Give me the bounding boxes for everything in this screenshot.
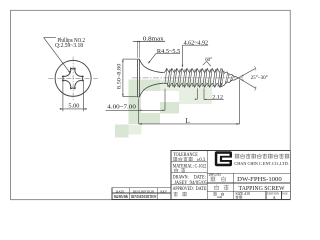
svg-text:REVISED EDITION: REVISED EDITION: [131, 195, 156, 199]
dimension 60 degree thread angle: [203, 56, 212, 66]
revision table: [112, 188, 171, 200]
svg-text:A: A: [273, 195, 276, 200]
dwg no cell: [209, 173, 282, 183]
approved cell: [173, 187, 208, 196]
svg-text:DATE:: DATE:: [196, 187, 208, 192]
unit cell: [213, 192, 224, 199]
title block grid: [171, 150, 290, 199]
screw axis centerline: [132, 77, 243, 79]
svg-text:L: L: [186, 117, 190, 125]
tolerance cell: [173, 152, 206, 163]
svg-text:SIZE #10: SIZE #10: [235, 192, 250, 196]
dimension 5.00 recess width: [59, 80, 87, 111]
svg-text:PAGE: PAGE: [282, 192, 287, 196]
material cell: [173, 164, 207, 172]
svg-text:DW-FPHS-1000: DW-FPHS-1000: [237, 176, 282, 183]
page cell: [282, 192, 287, 196]
company name: [234, 154, 289, 168]
screw head profile: [138, 59, 165, 97]
dimension 4.62~4.92: [182, 41, 209, 68]
drawn cell: [173, 176, 208, 186]
svg-text:DWG.NO: DWG.NO: [209, 173, 222, 177]
svg-text:4.00~7.00: 4.00~7.00: [107, 105, 136, 111]
svg-text:JASEY: JASEY: [174, 181, 188, 186]
svg-text:25°~30°: 25°~30°: [251, 74, 268, 81]
svg-text:4.62~4.92: 4.62~4.92: [184, 41, 208, 47]
svg-text:APPROVED:: APPROVED:: [173, 187, 194, 192]
dimension R4.5~5.5: [148, 49, 180, 64]
phillips recess cross: [62, 68, 83, 89]
svg-text:DESCRIPTION: DESCRIPTION: [133, 190, 155, 194]
company logo: [215, 151, 232, 166]
svg-text:0.8max: 0.8max: [143, 37, 164, 43]
head outline circle: [55, 60, 91, 96]
svg-text:±0.3: ±0.3: [197, 158, 206, 163]
screw thread: [165, 69, 239, 88]
svg-text:94/05/06: 94/05/06: [114, 195, 128, 199]
dimension 25~30 degree point angle: [238, 66, 268, 91]
svg-text:Q:2.59~3.18: Q:2.59~3.18: [55, 42, 83, 49]
svg-text:DATE: DATE: [116, 190, 125, 194]
svg-text:MATERIAL: C-1022: MATERIAL: C-1022: [173, 164, 207, 169]
svg-text:5.00: 5.00: [68, 103, 79, 109]
dimension 0.8max: [133, 37, 165, 58]
drawing border frame: [11, 10, 291, 199]
svg-text:94/05/05: 94/05/05: [190, 181, 208, 186]
svg-text:DRAWN:: DRAWN:: [173, 176, 189, 181]
leader note Phillips NO.2: [44, 37, 85, 74]
dimension 2.12 thread pitch: [195, 88, 224, 100]
green company-logo watermark: [115, 80, 212, 138]
svg-text:8.50~8.80: 8.50~8.80: [116, 63, 122, 89]
size cell: [235, 192, 250, 199]
part name cell: [214, 185, 285, 192]
dimension L overall length: [139, 80, 240, 125]
dimension 8.50~8.80 head diameter: [116, 59, 137, 97]
edition cell: [267, 192, 279, 200]
svg-text:mm: mm: [217, 195, 222, 199]
svg-text:60°: 60°: [205, 56, 212, 63]
svg-text:DATE:: DATE:: [194, 176, 206, 181]
svg-text:2.12: 2.12: [212, 95, 223, 101]
centerlines of head view: [48, 57, 97, 101]
dimension 4.00~7.00: [106, 89, 165, 111]
svg-text:REV: REV: [160, 190, 167, 194]
svg-text:R4.5~5.5: R4.5~5.5: [157, 49, 180, 55]
